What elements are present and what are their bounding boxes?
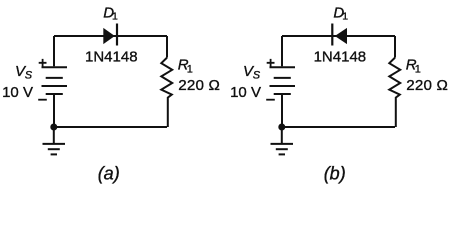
svg-text:10 V: 10 V <box>2 84 33 101</box>
svg-text:1: 1 <box>112 11 118 23</box>
svg-text:(b): (b) <box>324 163 346 183</box>
svg-text:1: 1 <box>187 63 193 75</box>
svg-text:1N4148: 1N4148 <box>85 48 138 65</box>
svg-text:220 Ω: 220 Ω <box>406 77 448 94</box>
svg-text:1N4148: 1N4148 <box>314 48 367 65</box>
svg-text:S: S <box>253 69 261 81</box>
svg-text:S: S <box>25 69 33 81</box>
svg-text:220 Ω: 220 Ω <box>178 77 220 94</box>
svg-text:1: 1 <box>415 63 421 75</box>
svg-text:(a): (a) <box>98 163 120 183</box>
svg-text:1: 1 <box>342 11 348 23</box>
svg-text:10 V: 10 V <box>230 84 261 101</box>
